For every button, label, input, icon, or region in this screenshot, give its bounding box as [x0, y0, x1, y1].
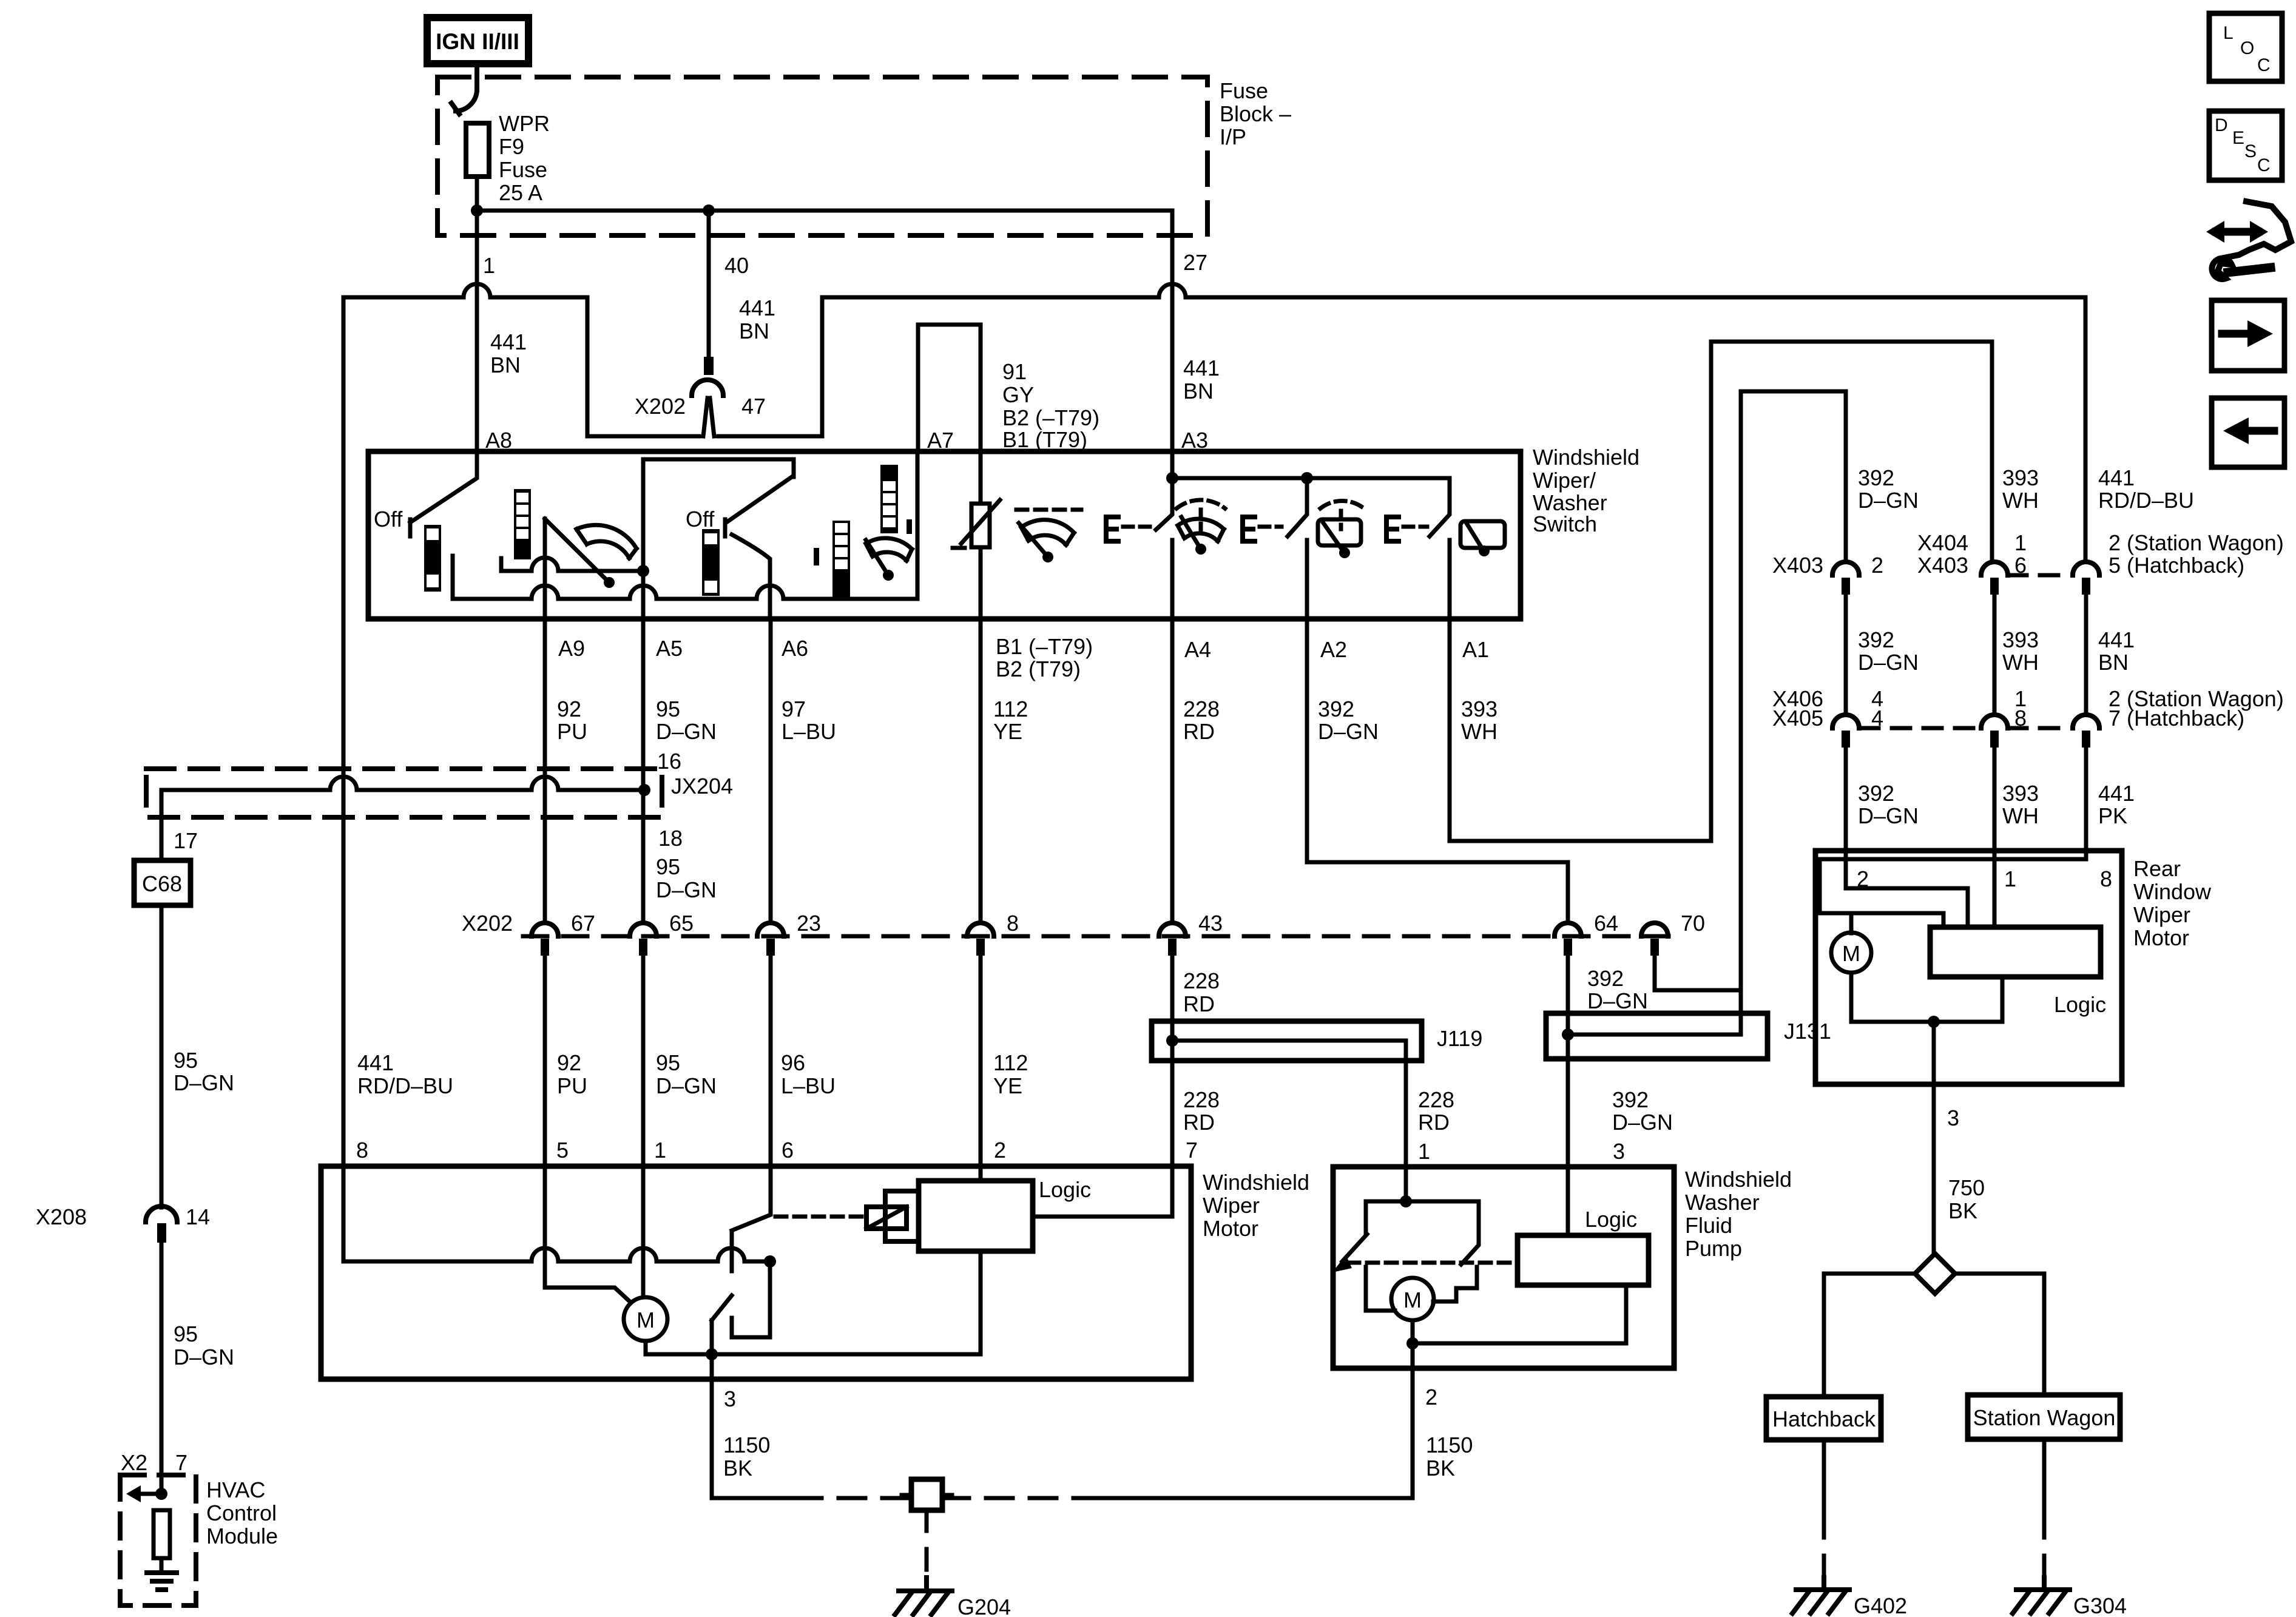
svg-text:BN: BN: [2098, 650, 2129, 675]
branch to Hatchback: [1824, 1274, 1915, 1397]
svg-text:D–GN: D–GN: [174, 1345, 234, 1369]
svg-text:112: 112: [993, 1050, 1028, 1075]
wire 393 WH to rear motor pin 1: [1993, 748, 1997, 851]
wire 95 D-GN to motor pin 1: [641, 956, 646, 1166]
branch to Station Wagon: [1955, 1274, 2044, 1395]
svg-text:X2: X2: [121, 1450, 147, 1475]
wire 17 down to C68: [160, 817, 164, 860]
svg-text:D–GN: D–GN: [656, 1073, 717, 1098]
wrench navigation icon: [2221, 201, 2291, 258]
svg-text:2: 2: [1425, 1385, 1437, 1409]
svg-text:Hatchback: Hatchback: [1772, 1406, 1876, 1431]
svg-text:Windshield: Windshield: [1203, 1170, 1309, 1195]
svg-text:92: 92: [557, 1050, 581, 1075]
svg-text:Block –: Block –: [1220, 101, 1291, 126]
svg-text:C68: C68: [142, 871, 182, 896]
wiper icon 2 pivot dot: [883, 570, 894, 581]
logic box wiper motor: [919, 1181, 1033, 1251]
svg-text:X202: X202: [635, 394, 686, 419]
svg-text:5 (Hatchback): 5 (Hatchback): [2109, 553, 2244, 578]
svg-text:A4: A4: [1184, 637, 1211, 662]
svg-text:65: 65: [669, 911, 694, 936]
svg-text:1: 1: [483, 253, 495, 278]
windshield washer fluid pump box: [1333, 1167, 1674, 1368]
arrow left nav box: [2212, 398, 2284, 467]
svg-text:RD: RD: [1183, 991, 1215, 1016]
wiper icon 3 dashes: [1016, 508, 1081, 512]
svg-text:97: 97: [782, 697, 806, 721]
svg-text:WH: WH: [2002, 803, 2039, 828]
wire stub to bus2: [499, 558, 504, 571]
svg-text:X202: X202: [462, 911, 513, 936]
rear motor M: [1831, 933, 1871, 973]
svg-text:Module: Module: [206, 1524, 278, 1548]
svg-text:WH: WH: [2002, 488, 2039, 513]
svg-text:6: 6: [782, 1138, 794, 1163]
wire pin 1 to motor M top: [641, 1166, 646, 1297]
wire below Hatchback: [1822, 1440, 1826, 1517]
svg-text:M: M: [1842, 941, 1860, 966]
junction dot J131: [1562, 1028, 1574, 1041]
svg-text:G304: G304: [2073, 1593, 2127, 1617]
JX204 dashed junction block: [146, 769, 662, 817]
svg-text:C: C: [2257, 55, 2271, 75]
svg-text:Washer: Washer: [1685, 1190, 1760, 1215]
X406/X405 row2 connector 392: [1832, 715, 1859, 728]
svg-text:91: 91: [1002, 359, 1027, 384]
wiper icon A4 pivot dot: [1195, 544, 1206, 555]
svg-text:D: D: [2215, 115, 2228, 135]
row2 connector 393: [1981, 715, 2008, 728]
svg-text:2: 2: [1871, 553, 1883, 578]
svg-text:43: 43: [1198, 911, 1223, 936]
switch A1 stub and arm: [1430, 478, 1450, 619]
svg-text:16: 16: [657, 749, 681, 774]
wire lower arm to bottom bus: [710, 1320, 714, 1354]
svg-text:Off: Off: [374, 507, 403, 532]
fuse block dashed box: [437, 77, 1207, 235]
wire A2 392 D-GN jog to X202-64: [1307, 619, 1568, 923]
HVAC arrow left: [141, 1492, 161, 1496]
wiper icon 2 blade: [866, 540, 888, 575]
junction dot bus to park contact: [764, 1255, 776, 1268]
svg-text:G402: G402: [1854, 1593, 1907, 1617]
svg-text:B1 (T79): B1 (T79): [1002, 427, 1087, 452]
svg-text:M: M: [1403, 1288, 1422, 1312]
svg-text:Windshield: Windshield: [1533, 445, 1639, 470]
wire 393 between rows: [1993, 595, 1997, 715]
wire pin 7 to logic right tab: [1033, 1166, 1172, 1217]
svg-text:14: 14: [186, 1204, 210, 1229]
pump left switch arm: [1342, 1234, 1367, 1261]
svg-text:67: 67: [571, 911, 595, 936]
junction dot A3-A4: [1166, 472, 1178, 484]
svg-text:Off: Off: [686, 507, 715, 532]
splice diamond: [1915, 1254, 1955, 1294]
X202-67 connector: [532, 923, 558, 936]
svg-text:3: 3: [724, 1386, 736, 1411]
wire below Station Wagon: [2042, 1439, 2047, 1517]
svg-text:7 (Hatchback): 7 (Hatchback): [2109, 706, 2244, 731]
svg-text:47: 47: [741, 394, 766, 419]
tick left of ladder C: [814, 548, 819, 565]
svg-text:E: E: [2232, 128, 2244, 148]
svg-text:IGN II/III: IGN II/III: [436, 29, 519, 54]
svg-text:Pump: Pump: [1685, 1236, 1742, 1261]
relay coil bracket: [885, 1191, 917, 1241]
rear window wiper motor box: [1815, 851, 2122, 1084]
junction dot bus2-A5: [637, 565, 649, 577]
svg-text:95: 95: [656, 1050, 680, 1075]
svg-text:Motor: Motor: [1203, 1216, 1258, 1241]
motor M windshield wiper: [624, 1297, 667, 1341]
svg-text:Control: Control: [206, 1501, 277, 1525]
pump dashed actuator: [1348, 1261, 1518, 1265]
svg-text:YE: YE: [993, 719, 1022, 744]
svg-text:40: 40: [724, 253, 749, 278]
svg-text:J119: J119: [1437, 1026, 1482, 1051]
HVAC resistor: [154, 1510, 170, 1558]
variable resistor 91 GY: [979, 451, 983, 504]
ground G304: [2016, 1578, 2070, 1590]
detent ladder D: [880, 465, 898, 533]
svg-text:95: 95: [174, 1048, 198, 1073]
junction dot JX204: [638, 784, 650, 796]
wire 112 YE to motor pin 2: [979, 956, 983, 1166]
HVAC earth ground: [147, 1573, 177, 1590]
441 BN distribution bus y=490 with hops and dip around X202-47: [343, 284, 2085, 562]
svg-text:Rear: Rear: [2133, 856, 2181, 881]
X202-47 connector arc: [692, 380, 723, 396]
svg-text:393: 393: [2002, 627, 2039, 652]
washer icon A1 body: [1460, 521, 1505, 548]
svg-text:2: 2: [994, 1138, 1006, 1163]
svg-text:WH: WH: [2002, 650, 2039, 675]
svg-text:A9: A9: [558, 636, 585, 661]
wiper icon 2 fan: [866, 538, 912, 561]
X404/X403 row1 connector 393: [1981, 562, 2008, 575]
pump parallel branch top: [1366, 1200, 1479, 1204]
svg-text:1: 1: [2014, 530, 2027, 555]
wire A9 92 PU down to X202-67: [543, 619, 547, 923]
wire A4 228 RD down to X202-43: [1170, 619, 1175, 923]
svg-text:BK: BK: [1948, 1198, 1977, 1223]
svg-text:Wiper/: Wiper/: [1533, 468, 1596, 493]
switch A2 stub and arm: [1288, 478, 1307, 619]
svg-text:392: 392: [1858, 627, 1894, 652]
svg-text:D–GN: D–GN: [656, 719, 717, 744]
C68 connector box: [134, 860, 191, 905]
svg-text:L: L: [2223, 23, 2234, 43]
wire pin 2 into logic: [979, 1166, 983, 1181]
svg-text:7: 7: [1186, 1138, 1198, 1163]
row2 dashed links: [1860, 726, 1980, 731]
wiper icon 1 pivot dot: [604, 577, 615, 588]
svg-text:70: 70: [1681, 911, 1705, 936]
svg-text:95: 95: [174, 1322, 198, 1346]
X202-47 connector prongs: [703, 398, 714, 436]
svg-text:PU: PU: [557, 1073, 587, 1098]
svg-text:Fluid: Fluid: [1685, 1213, 1732, 1238]
svg-text:S: S: [2244, 141, 2257, 161]
svg-text:1: 1: [654, 1138, 666, 1163]
rear motor wire pin8 feed: [1820, 851, 2086, 933]
svg-text:441: 441: [739, 295, 775, 320]
wiper icon 3 pivot dot: [1042, 552, 1053, 562]
svg-text:X404: X404: [1917, 530, 1968, 555]
svg-text:GY: GY: [1002, 382, 1034, 407]
detent ladder A: [424, 525, 441, 592]
switch contact above fuse F9: [451, 64, 477, 114]
E actuator A1: [1386, 517, 1399, 541]
svg-text:23: 23: [797, 911, 821, 936]
svg-text:392: 392: [1318, 697, 1354, 721]
svg-text:750: 750: [1948, 1175, 1985, 1200]
svg-text:Logic: Logic: [2054, 992, 2106, 1017]
svg-text:X403: X403: [1917, 553, 1968, 578]
svg-text:A2: A2: [1320, 637, 1347, 662]
svg-text:D–GN: D–GN: [656, 877, 717, 902]
junction dot A3-A2: [1301, 472, 1313, 484]
X202-64 connector: [1555, 923, 1581, 936]
G204 splice square: [911, 1479, 942, 1510]
fuse F9 element: [466, 123, 489, 177]
park switch lower contact: [732, 1261, 770, 1337]
svg-text:393: 393: [2002, 465, 2039, 490]
svg-text:I/P: I/P: [1220, 124, 1246, 149]
svg-text:92: 92: [557, 697, 581, 721]
windshield wiper/washer switch box: [368, 451, 1521, 619]
svg-text:PU: PU: [557, 719, 587, 744]
svg-text:Fuse: Fuse: [1220, 78, 1268, 103]
wire fuse to bus: [475, 177, 479, 211]
wire X202-70 hook up to rear circuit: [1655, 391, 1846, 990]
ground G402: [1796, 1578, 1849, 1590]
wiper icon 1 blade: [545, 519, 609, 582]
svg-text:A8: A8: [485, 428, 512, 453]
Hatchback option box: [1766, 1397, 1881, 1440]
svg-text:Motor: Motor: [2133, 925, 2189, 950]
svg-text:441: 441: [2098, 465, 2135, 490]
bus inside fuse block: [477, 211, 1172, 235]
arrow right nav box: [2212, 300, 2284, 371]
J119 splice box: [1152, 1021, 1422, 1061]
junction dot pump bottom: [1406, 1337, 1419, 1349]
svg-text:BK: BK: [1426, 1456, 1455, 1480]
svg-text:B1 (–T79): B1 (–T79): [996, 634, 1093, 659]
svg-text:228: 228: [1183, 697, 1220, 721]
svg-text:228: 228: [1183, 1087, 1220, 1112]
X208 connector arc: [146, 1206, 177, 1222]
E actuator A4: [1106, 517, 1118, 541]
wire pin 6 to park switch arm: [732, 1166, 771, 1230]
J131 splice box: [1546, 1013, 1768, 1059]
wire 228 RD to J119 and motor pin 7: [1170, 956, 1175, 1166]
svg-text:J131: J131: [1784, 1019, 1831, 1044]
wire 392 D-GN to rear motor pin 2: [1844, 748, 1848, 851]
svg-text:3: 3: [1947, 1106, 1959, 1130]
pump right contact hook: [1433, 1267, 1477, 1301]
windshield wiper motor box: [321, 1166, 1191, 1379]
K switch curved arm: [732, 535, 770, 619]
pump left contact: [1366, 1267, 1395, 1311]
rear motor wire pin1 to logic: [1993, 851, 1997, 927]
wire 96 L-BU to motor pin 6: [769, 956, 773, 1166]
svg-text:HVAC: HVAC: [206, 1477, 265, 1502]
wiper icon A4 spray dashes: [1177, 500, 1225, 508]
svg-text:Switch: Switch: [1533, 511, 1597, 536]
wire A5 95 D-GN down to X202-65: [641, 619, 646, 923]
wire 441 RD/D-BU left branch down to motor pin 8: [342, 297, 346, 1166]
logic bottom tab to bus: [979, 1251, 983, 1354]
rear motor wire pin2 to logic: [1846, 851, 1968, 927]
junction dot HVAC: [155, 1488, 167, 1500]
junction dot pump top: [1400, 1195, 1412, 1207]
dashed drop to G204: [925, 1510, 929, 1578]
svg-text:18: 18: [658, 826, 683, 851]
X202-43 connector: [1159, 923, 1186, 936]
svg-text:7: 7: [175, 1450, 187, 1475]
svg-text:96: 96: [781, 1050, 805, 1075]
wire 441 PK to rear motor pin 8: [2084, 748, 2088, 851]
svg-text:O: O: [2240, 38, 2254, 58]
svg-text:BN: BN: [739, 319, 769, 343]
svg-text:441: 441: [357, 1050, 394, 1075]
X202-23 connector: [757, 923, 784, 936]
washer pump pin 1 wire: [1404, 1167, 1408, 1201]
svg-text:Wiper: Wiper: [2133, 902, 2190, 927]
svg-text:392: 392: [1612, 1087, 1649, 1112]
X202-8 connector: [967, 923, 994, 936]
svg-text:D–GN: D–GN: [174, 1070, 234, 1095]
svg-text:1: 1: [1418, 1139, 1430, 1164]
wire B 112 YE down to X202-8: [979, 619, 983, 923]
svg-text:27: 27: [1183, 250, 1207, 275]
pump right switch arm: [1461, 1201, 1479, 1264]
rear pin 3 wire 750 BK: [1932, 1022, 1936, 1254]
junction dot rear bus: [1928, 1016, 1940, 1028]
tick right of ladder D: [907, 519, 912, 534]
wire A5 route to K pivot: [643, 459, 794, 619]
svg-text:393: 393: [1461, 697, 1497, 721]
switch arm A8 Off: [410, 451, 477, 536]
wire 441 between rows: [2084, 595, 2088, 715]
wiper icon A4 fan: [1178, 519, 1224, 541]
wire 92 PU to motor pin 5: [543, 956, 547, 1166]
park switch dashed actuator: [775, 1215, 864, 1219]
svg-text:25 A: 25 A: [499, 180, 542, 205]
motor M washer pump: [1391, 1278, 1434, 1320]
svg-text:17: 17: [174, 828, 198, 853]
svg-text:392: 392: [1858, 465, 1894, 490]
X202-47 inline connector stub: [704, 357, 714, 375]
svg-text:D–GN: D–GN: [1858, 803, 1919, 828]
svg-text:64: 64: [1594, 911, 1618, 936]
junction dot pin1: [471, 204, 483, 217]
svg-text:B2 (–T79): B2 (–T79): [1002, 405, 1099, 430]
svg-text:PK: PK: [2098, 803, 2127, 828]
wire C68 to X208: [160, 905, 164, 1207]
pump M bottom wire: [1411, 1320, 1415, 1343]
wire pin 5 to motor M: [545, 1166, 631, 1303]
row1 connector 441: [2073, 562, 2099, 575]
svg-text:6: 6: [2014, 553, 2027, 578]
park switch lower arm: [712, 1295, 732, 1320]
svg-text:441: 441: [2098, 627, 2135, 652]
Off label ladder middle: [702, 529, 720, 596]
svg-text:BN: BN: [490, 353, 521, 377]
E actuator A2: [1243, 517, 1255, 541]
svg-text:YE: YE: [993, 1073, 1022, 1098]
switch A4 stub and arm: [1156, 478, 1172, 619]
junction dot J119: [1166, 1035, 1178, 1047]
svg-text:441: 441: [490, 329, 527, 354]
wire below VR to B pin bottom: [979, 547, 983, 619]
svg-text:A3: A3: [1181, 428, 1208, 453]
svg-text:3: 3: [1613, 1139, 1625, 1164]
svg-text:5: 5: [556, 1138, 569, 1163]
rear M bottom bus: [1851, 973, 2002, 1022]
power feed IGN II/III box: [427, 18, 528, 64]
X202-70 connector: [1641, 923, 1668, 936]
X202 connector row dashed line: [523, 934, 1669, 939]
svg-text:1: 1: [2004, 866, 2016, 891]
X208 connector stub: [157, 1223, 166, 1243]
svg-text:D–GN: D–GN: [1858, 650, 1919, 675]
svg-text:C: C: [2257, 155, 2271, 175]
wiper motor bottom bus: [646, 1341, 981, 1354]
J119 branch to pump pin 1: [1172, 1041, 1406, 1167]
switch bus1 to A7: [453, 451, 917, 599]
svg-text:BN: BN: [1183, 379, 1214, 403]
wire A9 up to wiper icon: [543, 519, 547, 619]
svg-text:RD/D–BU: RD/D–BU: [2098, 488, 2194, 513]
svg-text:BK: BK: [723, 1456, 752, 1480]
svg-text:RD/D–BU: RD/D–BU: [357, 1073, 453, 1098]
svg-text:Windshield: Windshield: [1685, 1167, 1792, 1192]
svg-text:D–GN: D–GN: [1587, 988, 1648, 1013]
X202-65 connector: [630, 923, 657, 936]
svg-text:D–GN: D–GN: [1612, 1110, 1673, 1135]
svg-text:WH: WH: [1461, 719, 1497, 744]
svg-text:Fuse: Fuse: [499, 157, 547, 182]
svg-text:F9: F9: [499, 134, 524, 159]
svg-text:95: 95: [656, 854, 680, 879]
wire 392 between rows: [1844, 595, 1848, 715]
DESC nav box: [2209, 111, 2282, 180]
svg-text:X403: X403: [1772, 553, 1823, 578]
svg-text:JX204: JX204: [671, 774, 733, 798]
ground G204 symbol: [899, 1578, 952, 1591]
wiper icon A4 blade: [1181, 517, 1201, 549]
Station Wagon option box: [1968, 1395, 2120, 1439]
svg-text:392: 392: [1858, 781, 1894, 806]
HVAC control module dashed box: [120, 1475, 196, 1605]
svg-text:8: 8: [2100, 866, 2112, 891]
wiper motor internal bus from pin 8: [343, 1166, 770, 1261]
wire pump pin 2 ground exit: [1411, 1343, 1415, 1498]
wire A6 97 L-BU down to X202-23: [769, 619, 773, 923]
svg-text:Logic: Logic: [1039, 1177, 1091, 1202]
logic box washer pump: [1518, 1235, 1649, 1285]
washer icon A2 body: [1318, 519, 1361, 545]
switch bus2 to A5: [501, 558, 643, 571]
wire pin 3 into pump logic: [1566, 1167, 1570, 1235]
svg-text:228: 228: [1418, 1087, 1454, 1112]
svg-text:L–BU: L–BU: [782, 719, 836, 744]
svg-text:M: M: [636, 1308, 655, 1332]
svg-text:L–BU: L–BU: [781, 1073, 836, 1098]
